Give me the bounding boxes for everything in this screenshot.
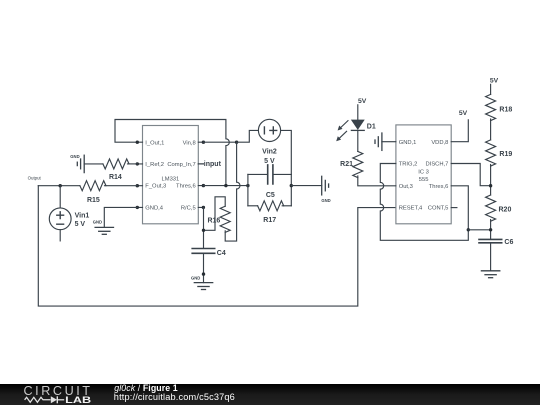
wire R15 to pin3: [105, 185, 138, 187]
svg-text:GND: GND: [93, 219, 102, 224]
resistor R20: [486, 195, 512, 221]
svg-text:C5: C5: [266, 192, 275, 199]
svg-text:5 V: 5 V: [264, 158, 275, 165]
svg-text:Thres,6: Thres,6: [429, 184, 449, 190]
svg-text:VDD,8: VDD,8: [431, 140, 448, 146]
timer IC3 555 body: [396, 125, 451, 224]
wire left rail: [247, 174, 249, 205]
wire 5V to VDD,8: [451, 120, 468, 142]
wire R21 to LED: [357, 130, 359, 151]
svg-text:F_Out,3: F_Out,3: [145, 184, 166, 190]
node pin3 dot: [136, 184, 139, 187]
IC3 pin labels left: [399, 140, 423, 212]
wire junction to Vin2 left: [237, 130, 259, 142]
svg-text:DISCH,7: DISCH,7: [426, 162, 449, 168]
U1 pin labels left: [145, 140, 166, 211]
svg-text:R20: R20: [499, 206, 512, 213]
svg-text:Vin2: Vin2: [262, 148, 277, 155]
svg-text:GND: GND: [191, 275, 200, 280]
svg-text:5V: 5V: [358, 98, 367, 105]
node Output flag: [28, 176, 42, 181]
LED D1: [351, 120, 375, 130]
node 5V flag D1: [358, 98, 367, 105]
footer title gl0ck / Figure 1: [114, 383, 178, 393]
svg-text:C6: C6: [504, 239, 513, 246]
node Output dot: [59, 184, 62, 187]
wire pin4 to ground: [104, 207, 137, 227]
ground GND below C4: [191, 275, 213, 289]
capacitor C6: [479, 239, 513, 246]
svg-text:R19: R19: [499, 151, 512, 158]
svg-text:R18: R18: [499, 107, 512, 114]
svg-text:R/C,5: R/C,5: [181, 206, 196, 212]
wire Out,3 to R21: [358, 176, 396, 186]
svg-text:GND,4: GND,4: [145, 206, 163, 212]
svg-text:Vin1: Vin1: [75, 213, 90, 220]
node pin4 dot: [136, 206, 139, 209]
svg-text:http://circuitlab.com/c5c37q6: http://circuitlab.com/c5c37q6: [114, 392, 235, 402]
node pin2 dot: [136, 162, 139, 165]
svg-text:5V: 5V: [490, 78, 499, 85]
svg-text:LAB: LAB: [65, 395, 91, 405]
node Thres-TRIG dot: [467, 228, 470, 231]
wire ground to GND,1: [382, 141, 396, 143]
svg-text:R16: R16: [207, 218, 220, 225]
svg-text:RESET,4: RESET,4: [399, 206, 423, 212]
resistor R14: [103, 159, 129, 181]
CircuitLab logo LAB: [65, 395, 91, 405]
U1 pin labels right: [167, 140, 195, 211]
ground GND at pin4: [93, 219, 114, 234]
ground GND at C5 rail: [321, 176, 330, 203]
svg-text:Output: Output: [28, 176, 42, 181]
node C4-gnd dot: [202, 272, 205, 275]
CircuitLab logo zigzag diode: [25, 396, 65, 403]
svg-text:C4: C4: [217, 250, 226, 257]
wire TRIG,2 loop down (hops Out,3 and RESET,4): [380, 164, 468, 241]
node left rail dot: [246, 184, 249, 187]
svg-text:R21: R21: [340, 161, 353, 168]
LED D1 emission arrows: [336, 121, 348, 142]
wire Thres,6 down: [451, 186, 468, 230]
resistor R15: [80, 181, 106, 204]
resistor R21: [340, 151, 363, 177]
wire right rail to ground: [291, 185, 321, 187]
CircuitLab logo CIRCUIT: [24, 384, 91, 398]
capacitor C4: [192, 249, 226, 258]
svg-text:I_Ref,2: I_Ref,2: [145, 162, 164, 168]
resistor R17: [248, 201, 291, 224]
wire R20 to C6 node: [490, 220, 492, 240]
svg-text:Comp_In,7: Comp_In,7: [167, 162, 195, 168]
svg-text:input: input: [204, 161, 222, 168]
svg-text:5V: 5V: [459, 110, 468, 117]
svg-text:LM331: LM331: [162, 177, 180, 183]
svg-text:Out,3: Out,3: [399, 184, 413, 190]
svg-text:R17: R17: [263, 217, 276, 224]
wire pin8 to junction: [203, 141, 236, 143]
wire R18 to R19: [490, 119, 492, 140]
node pin8 dot: [202, 141, 205, 144]
wire gnd to R14: [84, 163, 103, 165]
svg-text:GND: GND: [70, 154, 79, 159]
voltage source Vin1: [49, 208, 89, 230]
wire junction down to R16 bottom: [225, 142, 240, 241]
wire pin5 down: [203, 207, 205, 248]
op-amp U1 LM331 body: [143, 126, 199, 224]
wire Vin2 right to rail: [281, 130, 292, 205]
resistor R19: [486, 140, 513, 166]
capacitor C5: [248, 165, 291, 199]
node IOut-Thres junction dot: [224, 184, 227, 187]
node 5V flag VDD: [459, 110, 468, 117]
svg-text:CONT,5: CONT,5: [428, 206, 449, 212]
wire Thres node to C6 node: [468, 229, 490, 231]
wire Vin1 bottom stub: [59, 230, 61, 241]
wire LED to 5V: [357, 105, 359, 120]
svg-text:I_Out,1: I_Out,1: [145, 140, 164, 146]
svg-text:Thres,6: Thres,6: [176, 184, 196, 190]
svg-text:D1: D1: [367, 123, 376, 130]
svg-text:555: 555: [419, 177, 429, 183]
wire C6 to ground: [490, 243, 492, 271]
svg-text:R14: R14: [109, 174, 122, 181]
svg-text:R15: R15: [87, 197, 100, 204]
wire R14 to pin2: [128, 163, 138, 165]
resistor R18: [486, 94, 513, 120]
wire C4 to ground: [203, 254, 205, 283]
wire DISCH,7 to divider: [451, 164, 490, 186]
wire I_Out,1 loop to Thres,6: [115, 120, 229, 186]
wire CONT,5 stub: [451, 207, 457, 209]
svg-text:GND: GND: [321, 198, 330, 203]
resistor R16: [207, 206, 230, 232]
wire pin6 to left rail: [203, 185, 248, 187]
node pin1 dot: [136, 141, 139, 144]
wire Output to R15: [38, 185, 80, 187]
svg-text:GND,1: GND,1: [399, 140, 417, 146]
footer bar: [0, 384, 540, 405]
voltage source Vin2: [258, 119, 280, 165]
node pin6 dot: [202, 184, 205, 187]
svg-text:5 V: 5 V: [75, 221, 86, 228]
node right rail dot: [290, 184, 293, 187]
svg-text:TRIG,2: TRIG,2: [399, 162, 418, 168]
ground GND at R14: [70, 154, 84, 173]
node R20-C6 dot: [489, 228, 492, 231]
wire 5V to R18: [490, 84, 492, 94]
node DISCH divider dot: [489, 184, 492, 187]
footer url: [114, 392, 235, 402]
svg-text:Vin,8: Vin,8: [183, 140, 196, 146]
node Vin8-R16 junction dot: [235, 141, 238, 144]
svg-text:IC 3: IC 3: [418, 169, 429, 175]
ground below C6: [481, 271, 499, 278]
wire Output net to RESET,4: [38, 186, 396, 306]
ground at GND,1: [375, 133, 382, 150]
U1 pin stubs: [137, 142, 203, 207]
node pin5-R16-C4 dot: [202, 229, 205, 232]
node input flag: [198, 161, 221, 168]
IC3 pin labels right: [426, 140, 449, 212]
node pin5 dot: [202, 206, 205, 209]
wire R16 top to pin5 node: [204, 197, 226, 231]
wire Output node to Vin1: [59, 186, 61, 208]
wire R19 to node: [490, 165, 492, 196]
node 5V flag R18: [490, 78, 499, 85]
